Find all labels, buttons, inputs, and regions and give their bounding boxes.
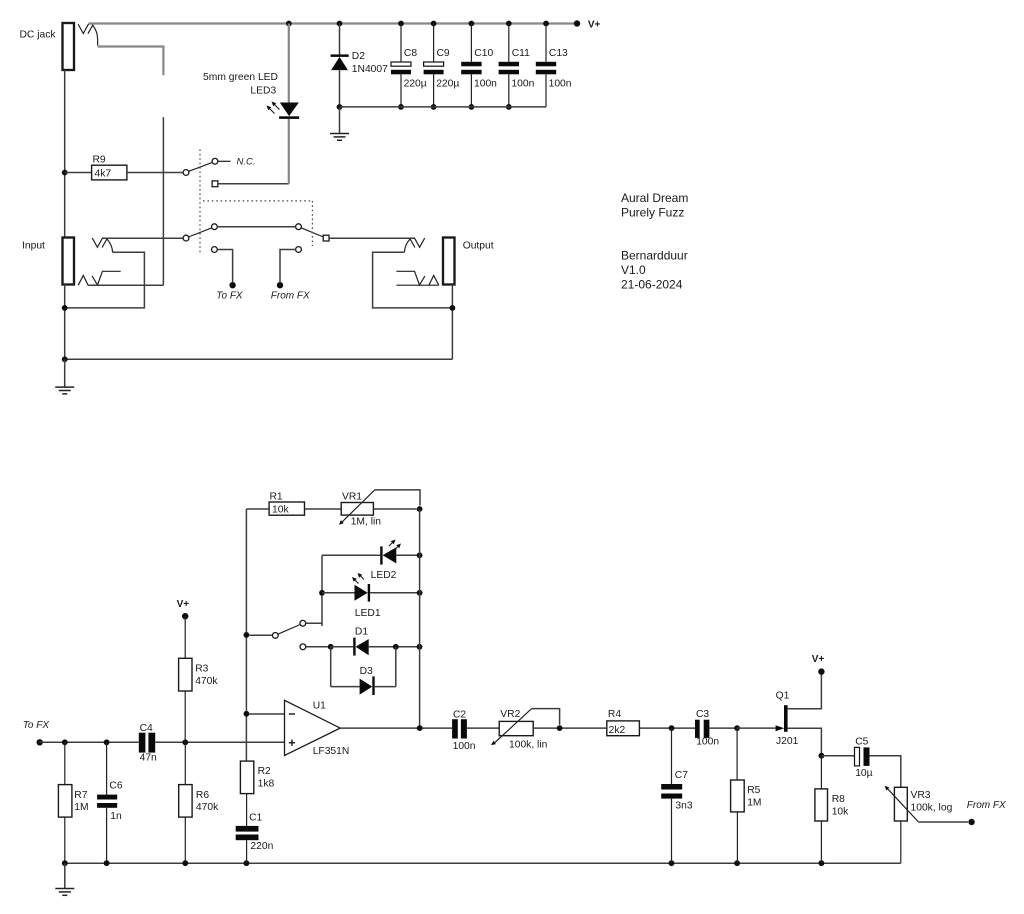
svg-text:C1: C1 bbox=[249, 812, 262, 823]
svg-text:C8: C8 bbox=[404, 48, 417, 59]
svg-text:R5: R5 bbox=[747, 785, 760, 796]
svg-text:VR3: VR3 bbox=[911, 790, 931, 801]
svg-text:Output: Output bbox=[463, 240, 494, 251]
svg-text:R3: R3 bbox=[195, 663, 208, 674]
svg-text:VR2: VR2 bbox=[500, 709, 520, 720]
svg-text:LF351N: LF351N bbox=[313, 746, 350, 757]
svg-text:J201: J201 bbox=[776, 736, 799, 747]
svg-text:10k: 10k bbox=[272, 505, 289, 516]
svg-text:D3: D3 bbox=[360, 666, 373, 677]
svg-text:1M: 1M bbox=[747, 798, 761, 809]
svg-text:C11: C11 bbox=[512, 48, 530, 59]
svg-text:R9: R9 bbox=[93, 154, 106, 165]
svg-text:LED1: LED1 bbox=[355, 608, 381, 619]
svg-text:100n: 100n bbox=[696, 737, 719, 748]
svg-text:From FX: From FX bbox=[271, 291, 310, 302]
svg-text:C4: C4 bbox=[140, 723, 153, 734]
svg-text:U1: U1 bbox=[313, 701, 326, 712]
svg-text:5mm green LED: 5mm green LED bbox=[203, 72, 278, 83]
svg-text:10k: 10k bbox=[832, 806, 849, 817]
svg-text:100n: 100n bbox=[474, 79, 497, 90]
svg-text:LED3: LED3 bbox=[250, 86, 276, 97]
svg-text:1M: 1M bbox=[74, 802, 88, 813]
svg-text:3n3: 3n3 bbox=[675, 800, 692, 811]
svg-text:C7: C7 bbox=[675, 770, 688, 781]
svg-text:220µ: 220µ bbox=[404, 79, 427, 90]
svg-text:R8: R8 bbox=[832, 794, 845, 805]
svg-text:R1: R1 bbox=[270, 491, 283, 502]
svg-text:1k8: 1k8 bbox=[258, 779, 275, 790]
svg-text:V1.0: V1.0 bbox=[621, 263, 646, 277]
svg-text:C6: C6 bbox=[109, 781, 122, 792]
svg-text:470k: 470k bbox=[195, 676, 218, 687]
svg-text:21-06-2024: 21-06-2024 bbox=[621, 278, 683, 292]
svg-text:Q1: Q1 bbox=[776, 690, 790, 701]
svg-text:100n: 100n bbox=[511, 79, 534, 90]
svg-text:VR1: VR1 bbox=[342, 492, 362, 503]
svg-text:100n: 100n bbox=[453, 741, 476, 752]
svg-text:4k7: 4k7 bbox=[95, 169, 112, 180]
svg-text:100k, log: 100k, log bbox=[911, 803, 953, 814]
svg-text:220µ: 220µ bbox=[436, 79, 459, 90]
svg-text:To FX: To FX bbox=[23, 720, 50, 731]
svg-text:1M, lin: 1M, lin bbox=[351, 517, 382, 528]
svg-text:Bernardduur: Bernardduur bbox=[621, 249, 688, 263]
svg-text:10µ: 10µ bbox=[855, 768, 872, 779]
svg-text:100n: 100n bbox=[549, 79, 572, 90]
svg-text:LED2: LED2 bbox=[371, 570, 397, 581]
svg-text:C10: C10 bbox=[474, 48, 493, 59]
svg-text:2k2: 2k2 bbox=[609, 725, 626, 736]
svg-text:V+: V+ bbox=[812, 654, 825, 665]
svg-text:C3: C3 bbox=[696, 709, 709, 720]
svg-text:D1: D1 bbox=[355, 627, 368, 638]
svg-text:Input: Input bbox=[22, 240, 45, 251]
svg-text:D2: D2 bbox=[352, 51, 365, 62]
svg-text:C2: C2 bbox=[453, 709, 466, 720]
svg-text:1n: 1n bbox=[110, 811, 122, 822]
svg-text:470k: 470k bbox=[196, 802, 219, 813]
svg-text:R2: R2 bbox=[258, 766, 271, 777]
svg-text:100k, lin: 100k, lin bbox=[509, 739, 548, 750]
svg-text:C9: C9 bbox=[437, 48, 450, 59]
svg-text:N.C.: N.C. bbox=[237, 157, 256, 168]
svg-text:47n: 47n bbox=[140, 753, 157, 764]
svg-text:R4: R4 bbox=[608, 709, 621, 720]
svg-text:V+: V+ bbox=[588, 20, 601, 31]
svg-text:To FX: To FX bbox=[216, 291, 243, 302]
svg-text:V+: V+ bbox=[177, 599, 190, 610]
svg-text:DC jack: DC jack bbox=[20, 30, 57, 41]
svg-text:1N4007: 1N4007 bbox=[352, 64, 388, 75]
svg-text:R7: R7 bbox=[74, 790, 87, 801]
svg-text:C13: C13 bbox=[549, 48, 568, 59]
svg-text:Aural Dream: Aural Dream bbox=[621, 191, 688, 205]
svg-text:C5: C5 bbox=[855, 737, 868, 748]
svg-text:R6: R6 bbox=[196, 790, 209, 801]
svg-text:From FX: From FX bbox=[967, 800, 1006, 811]
svg-text:Purely Fuzz: Purely Fuzz bbox=[621, 206, 684, 220]
svg-text:220n: 220n bbox=[250, 841, 273, 852]
